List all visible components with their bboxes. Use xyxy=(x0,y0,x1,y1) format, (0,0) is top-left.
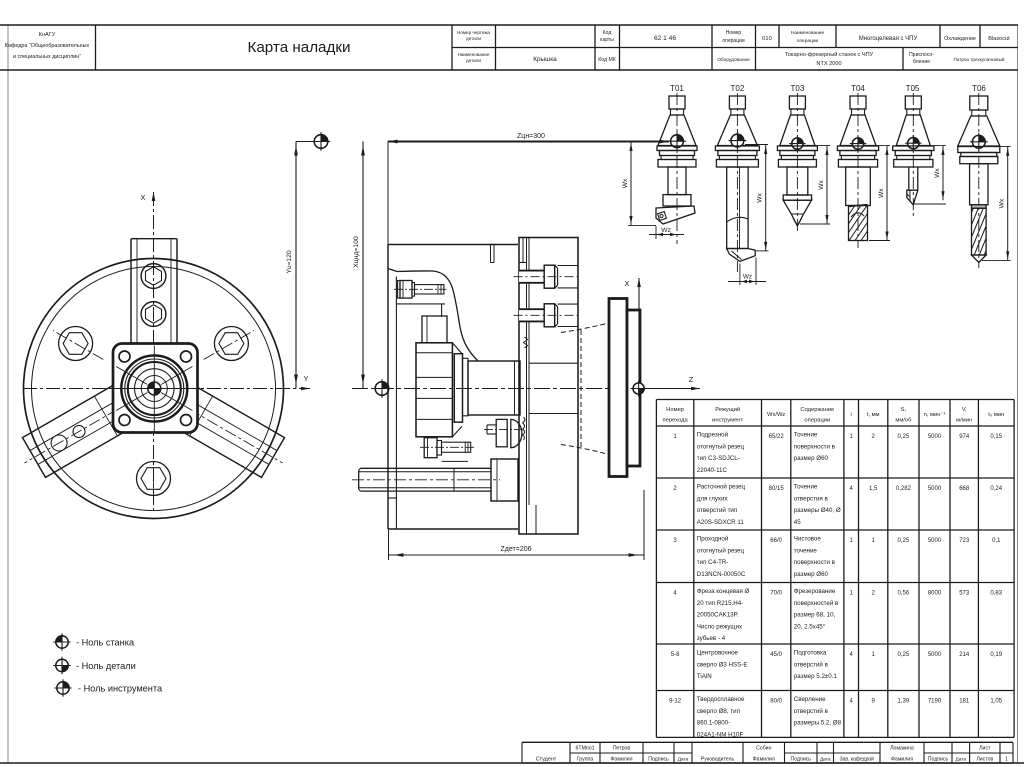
svg-text:Дата: Дата xyxy=(678,757,689,763)
tool T02 xyxy=(736,93,738,272)
T06 drill flutes xyxy=(972,208,987,255)
svg-text:Расточной резец: Расточной резец xyxy=(697,484,746,491)
svg-text:- Ноль инструмента: - Ноль инструмента xyxy=(78,684,163,694)
section: jaw clamp block xyxy=(491,459,518,501)
section: zigzag joint xyxy=(524,337,528,348)
workpiece plate 2 xyxy=(627,310,640,466)
flange centre rings xyxy=(121,356,187,422)
svg-text:Карта наладки: Карта наладки xyxy=(248,39,351,56)
svg-text:i: i xyxy=(851,412,852,418)
svg-text:Номер: Номер xyxy=(666,407,684,413)
svg-text:181: 181 xyxy=(959,699,970,705)
top jaw xyxy=(131,238,177,240)
svg-text:операции: операции xyxy=(797,39,819,44)
section: chuck body side outline xyxy=(387,142,389,245)
section: top bolt xyxy=(398,281,400,299)
chuck cam screw left xyxy=(59,327,93,361)
svg-text:тип C3-SDJCL-: тип C3-SDJCL- xyxy=(697,455,740,462)
svg-text:инструмент: инструмент xyxy=(712,418,743,424)
svg-text:Подпись: Подпись xyxy=(648,757,669,763)
svg-text:мм/об: мм/об xyxy=(895,418,912,424)
T01 cutter head xyxy=(656,206,695,224)
svg-text:карты: карты xyxy=(600,37,614,43)
svg-text:Xцнд=100: Xцнд=100 xyxy=(353,236,360,268)
section: body roof + shoulder profile xyxy=(388,269,478,362)
svg-text:6ТМпо1: 6ТМпо1 xyxy=(576,746,595,752)
svg-text:66/0: 66/0 xyxy=(770,538,782,544)
svg-text:перехода: перехода xyxy=(662,418,688,424)
svg-text:860.1-0800-: 860.1-0800- xyxy=(697,720,730,727)
svg-text:Фрезерование: Фрезерование xyxy=(794,588,836,595)
operations table grid xyxy=(656,399,1014,401)
svg-text:0,24: 0,24 xyxy=(990,486,1002,492)
svg-text:5-8: 5-8 xyxy=(671,652,680,658)
svg-text:20 тип R215.H4-: 20 тип R215.H4- xyxy=(697,600,743,607)
svg-text:0,25: 0,25 xyxy=(898,538,910,544)
svg-text:м/мин: м/мин xyxy=(956,418,972,424)
svg-text:Руководитель: Руководитель xyxy=(701,757,735,763)
svg-text:Многоцелевая с ЧПУ: Многоцелевая с ЧПУ xyxy=(859,36,918,42)
svg-text:t₀ мин: t₀ мин xyxy=(988,412,1004,418)
dimension Zдет=206 xyxy=(388,529,390,560)
T01 Wx dimension xyxy=(630,142,632,225)
svg-text:отверстий в: отверстий в xyxy=(794,661,829,668)
svg-text:S,: S, xyxy=(901,407,907,413)
svg-text:0,1: 0,1 xyxy=(992,538,1001,544)
svg-text:Приспосо-: Приспосо- xyxy=(909,52,934,58)
svg-text:операции: операции xyxy=(804,418,830,424)
T03 Wx dimension xyxy=(803,145,830,147)
svg-text:Подпись: Подпись xyxy=(928,757,949,763)
tool T03 xyxy=(796,93,798,232)
chuck body outer circle xyxy=(24,259,284,519)
svg-text:0,83: 0,83 xyxy=(990,591,1002,597)
signature block grid xyxy=(522,741,1013,743)
chuck cam screw bottom xyxy=(137,462,171,496)
top jaw screw 1 xyxy=(141,264,166,289)
svg-text:TiAlN: TiAlN xyxy=(697,673,712,680)
svg-text:Сверление: Сверление xyxy=(794,696,826,703)
svg-text:0,25: 0,25 xyxy=(898,434,910,440)
svg-text:Zцн=300: Zцн=300 xyxy=(517,133,545,140)
svg-text:0,282: 0,282 xyxy=(896,486,912,492)
chuck horizontal centerline / Y axis xyxy=(23,388,310,390)
svg-text:80/0: 80/0 xyxy=(770,699,782,705)
svg-text:сверло Ø3 HSS-E: сверло Ø3 HSS-E xyxy=(697,661,748,668)
svg-text:8000: 8000 xyxy=(928,591,942,597)
svg-text:65/22: 65/22 xyxy=(769,434,785,440)
section: shelf under bolt xyxy=(395,277,397,499)
svg-text:размер 5.2±0.1: размер 5.2±0.1 xyxy=(794,673,838,680)
svg-text:Лист: Лист xyxy=(979,746,991,752)
T05 tip xyxy=(907,190,918,205)
svg-text:0,56: 0,56 xyxy=(898,591,910,597)
svg-text:Точение: Точение xyxy=(794,432,818,439)
svg-text:Зав. кафедрой: Зав. кафедрой xyxy=(840,756,875,763)
svg-text:зубьев - 4: зубьев - 4 xyxy=(697,635,726,642)
svg-text:отверстий в: отверстий в xyxy=(794,708,829,715)
svg-text:поверхностей в: поверхностей в xyxy=(794,600,839,607)
svg-text:1,05: 1,05 xyxy=(990,699,1002,705)
title block grid xyxy=(0,24,1018,26)
chuck vertical centerline / X axis xyxy=(153,192,155,512)
svg-text:024A1-NM H10F: 024A1-NM H10F xyxy=(697,731,744,738)
svg-text:Wx/Wz: Wx/Wz xyxy=(767,412,785,418)
svg-text:Фреза концевая Ø: Фреза концевая Ø xyxy=(697,588,750,595)
svg-text:Подрезной: Подрезной xyxy=(697,432,729,439)
svg-text:010: 010 xyxy=(762,36,772,42)
svg-text:отверстий тип: отверстий тип xyxy=(697,507,737,514)
svg-text:45: 45 xyxy=(794,519,801,526)
svg-text:Токарно-фрезерный станок с ЧПУ: Токарно-фрезерный станок с ЧПУ xyxy=(785,51,874,58)
svg-text:0,15: 0,15 xyxy=(990,434,1002,440)
plate crosshair spokes xyxy=(162,388,198,390)
svg-text:размер 68, 10,: размер 68, 10, xyxy=(794,612,836,619)
dimension Yu=120 xyxy=(295,142,297,389)
svg-text:5000: 5000 xyxy=(928,434,942,440)
section: tall spacer strip xyxy=(454,354,462,423)
svg-text:для глухих: для глухих xyxy=(697,495,729,502)
svg-text:Патрон трехкулачковый: Патрон трехкулачковый xyxy=(954,56,1005,62)
workpiece (Крышка) plate 1 xyxy=(609,299,627,477)
svg-text:Номер: Номер xyxy=(726,30,742,36)
flange corner hole BL xyxy=(119,415,130,426)
svg-text:Оборудование: Оборудование xyxy=(717,57,750,63)
svg-text:Wz: Wz xyxy=(661,227,671,234)
svg-text:Кафедра “Общеобразовательных: Кафедра “Общеобразовательных xyxy=(5,43,90,49)
svg-text:Подпись: Подпись xyxy=(790,757,811,763)
svg-text:Код МК: Код МК xyxy=(598,57,616,63)
svg-text:Точение: Точение xyxy=(794,484,818,491)
svg-text:Ломакина: Ломакина xyxy=(890,746,914,752)
section: bottom jaw bar xyxy=(361,467,492,469)
svg-text:Наименование: Наименование xyxy=(791,30,825,36)
drawing frame right border xyxy=(1017,25,1019,763)
svg-text:Петров: Петров xyxy=(613,746,631,752)
T02 Wz dimension xyxy=(739,264,741,286)
svg-text:Собин: Собин xyxy=(756,746,772,752)
flange corner hole BR xyxy=(181,415,192,426)
svg-text:бление: бление xyxy=(913,59,930,65)
svg-text:Фамилия: Фамилия xyxy=(610,757,632,763)
svg-text:размер Ø60: размер Ø60 xyxy=(794,571,829,578)
svg-text:573: 573 xyxy=(959,591,970,597)
svg-text:Охлаждение: Охлаждение xyxy=(944,36,976,42)
svg-text:20050CAK13P.: 20050CAK13P. xyxy=(697,612,739,619)
svg-text:Листов: Листов xyxy=(976,757,993,763)
T04 Wx dimension xyxy=(864,145,890,147)
T05 Wx dimension xyxy=(919,145,946,147)
svg-text:- Ноль детали: - Ноль детали xyxy=(76,661,136,671)
svg-text:62 1 46: 62 1 46 xyxy=(654,35,676,42)
svg-text:Blasocut: Blasocut xyxy=(988,36,1010,42)
svg-text:20, 2.5x45°: 20, 2.5x45° xyxy=(794,623,826,630)
svg-text:T03: T03 xyxy=(791,84,805,93)
drawing frame bottom border xyxy=(0,762,1024,764)
svg-text:A20S-SDXCR 11: A20S-SDXCR 11 xyxy=(697,519,745,526)
svg-text:0,19: 0,19 xyxy=(990,652,1002,658)
tool T05 xyxy=(912,93,914,217)
svg-text:Центровочное: Центровочное xyxy=(697,650,739,657)
svg-text:Режущий: Режущий xyxy=(715,406,740,413)
svg-text:отогнутый резец: отогнутый резец xyxy=(697,443,745,450)
svg-text:Фамилия: Фамилия xyxy=(891,757,913,763)
workpiece X axis xyxy=(638,278,640,389)
svg-text:КнАГУ: КнАГУ xyxy=(39,32,56,38)
svg-text:- Ноль станка: - Ноль станка xyxy=(76,638,135,648)
section: right block (spindle housing) xyxy=(519,238,578,535)
dimension Xцнд=100 xyxy=(362,142,364,389)
section: inner small block xyxy=(422,316,447,343)
svg-text:Wx: Wx xyxy=(757,192,764,202)
tool T06 xyxy=(978,93,980,268)
svg-text:0,25: 0,25 xyxy=(898,652,910,658)
T03 point xyxy=(783,200,811,226)
T02 Wx dimension xyxy=(745,144,768,146)
svg-text:операции: операции xyxy=(722,38,744,44)
machine zero on section xyxy=(373,379,392,398)
svg-text:Наименование: Наименование xyxy=(458,52,490,57)
svg-text:размер Ø60: размер Ø60 xyxy=(794,455,829,462)
svg-text:5000: 5000 xyxy=(928,652,942,658)
svg-text:Число режущих: Число режущих xyxy=(697,623,743,630)
dimension Zцн=300 line xyxy=(388,141,669,143)
section: lower-right bolt xyxy=(487,424,496,426)
section: hidden part contour (dashed) xyxy=(580,330,582,448)
section: block bolt upper xyxy=(519,271,544,283)
svg-text:70/0: 70/0 xyxy=(770,591,782,597)
svg-text:T06: T06 xyxy=(972,84,986,93)
top jaw screw 2 xyxy=(141,302,166,327)
svg-text:Wz: Wz xyxy=(743,274,752,281)
T06 tip xyxy=(972,255,987,263)
svg-text:сверло Ø8, тип: сверло Ø8, тип xyxy=(697,708,740,715)
flange corner hole TL xyxy=(119,351,130,362)
svg-text:723: 723 xyxy=(959,538,970,544)
svg-text:поверхности в: поверхности в xyxy=(794,559,836,566)
svg-text:1,5: 1,5 xyxy=(869,486,878,492)
T01 Wz dimension xyxy=(655,226,657,239)
svg-text:X: X xyxy=(140,193,145,202)
svg-text:Чистовое: Чистовое xyxy=(794,536,822,543)
svg-text:974: 974 xyxy=(959,434,970,440)
svg-text:размеры 5.2, Ø8: размеры 5.2, Ø8 xyxy=(794,720,842,727)
svg-text:1: 1 xyxy=(1005,757,1008,763)
svg-text:точение: точение xyxy=(794,547,818,554)
jaw hole 1 xyxy=(71,423,87,439)
svg-text:Проходной: Проходной xyxy=(697,536,729,543)
workpiece Z axis xyxy=(640,388,700,390)
svg-text:T05: T05 xyxy=(906,84,920,93)
section: horizontal centreline xyxy=(352,388,660,390)
svg-text:и специальных дисциплин”: и специальных дисциплин” xyxy=(13,54,81,60)
svg-text:Zдет=206: Zдет=206 xyxy=(501,546,532,553)
svg-text:T01: T01 xyxy=(670,84,684,93)
section: hanging plate under tie line xyxy=(490,245,492,263)
svg-text:детали: детали xyxy=(466,58,481,63)
svg-text:214: 214 xyxy=(959,652,970,658)
svg-text:D13NCN-00050C: D13NCN-00050C xyxy=(697,571,746,578)
svg-text:Студент: Студент xyxy=(536,757,557,763)
T02 tip xyxy=(727,249,756,262)
jaw hole 2 xyxy=(48,432,70,454)
svg-text:Yu=120: Yu=120 xyxy=(286,250,293,273)
svg-text:Дата: Дата xyxy=(820,757,831,763)
legend: Ноль станка xyxy=(53,633,70,650)
svg-text:T02: T02 xyxy=(731,84,745,93)
svg-text:Y: Y xyxy=(303,374,308,383)
svg-text:5000: 5000 xyxy=(928,538,942,544)
svg-text:Фамилия: Фамилия xyxy=(753,757,775,763)
svg-text:1,39: 1,39 xyxy=(898,699,910,705)
lower-left jaw xyxy=(13,379,148,483)
chuck cam screw right xyxy=(214,327,248,361)
svg-text:детали: детали xyxy=(466,36,481,41)
svg-text:V,: V, xyxy=(962,407,967,413)
svg-text:Содержание: Содержание xyxy=(800,407,834,413)
svg-text:Группа: Группа xyxy=(577,757,594,763)
svg-text:Дата: Дата xyxy=(955,757,966,763)
legend: Ноль инструмента xyxy=(54,679,71,696)
svg-text:t, мм: t, мм xyxy=(867,412,880,418)
section: spindle bore lines xyxy=(529,362,578,364)
workpiece zero symbol xyxy=(631,380,647,396)
svg-text:n, мин⁻¹: n, мин⁻¹ xyxy=(924,412,946,418)
section: block bolt lower xyxy=(519,309,544,321)
svg-text:Z: Z xyxy=(689,375,694,384)
T06 Wx dimension xyxy=(985,145,1011,147)
flange corner hole TR xyxy=(181,351,192,362)
drawing frame left border xyxy=(7,25,9,763)
svg-text:9-12: 9-12 xyxy=(669,699,682,705)
svg-text:Подготовка: Подготовка xyxy=(794,650,827,657)
svg-text:поверхности в: поверхности в xyxy=(794,443,836,450)
centre square flange plate xyxy=(113,344,198,433)
section: drawtube block (side view) xyxy=(416,343,452,437)
svg-text:Wx: Wx xyxy=(999,198,1006,208)
legend: Ноль детали xyxy=(53,657,70,674)
svg-text:Твердосплавное: Твердосплавное xyxy=(697,696,745,703)
svg-text:5000: 5000 xyxy=(928,486,942,492)
tool T04 xyxy=(857,93,859,248)
svg-text:668: 668 xyxy=(959,486,970,492)
svg-text:отверстия в: отверстия в xyxy=(794,495,829,502)
svg-text:Номер чертежа: Номер чертежа xyxy=(457,30,490,35)
svg-text:Крышка: Крышка xyxy=(533,56,557,63)
svg-text:Код: Код xyxy=(603,30,612,36)
T04 mill flutes xyxy=(849,206,868,241)
svg-text:Wx: Wx xyxy=(934,168,941,178)
svg-text:тип C4-TR-: тип C4-TR- xyxy=(697,559,729,566)
svg-text:80/15: 80/15 xyxy=(769,486,785,492)
tool T01 xyxy=(676,93,678,244)
svg-text:отогнутый резец: отогнутый резец xyxy=(697,547,745,554)
svg-text:Wx: Wx xyxy=(622,178,629,188)
section: adapter cylinder xyxy=(468,361,520,415)
lower-right jaw xyxy=(159,379,294,483)
svg-text:Wx: Wx xyxy=(878,188,885,198)
svg-text:размеры Ø40, Ø: размеры Ø40, Ø xyxy=(794,507,841,514)
machine zero symbol (Ноль станка) xyxy=(296,141,314,143)
svg-text:Wx: Wx xyxy=(818,180,825,190)
svg-text:NTX 2000: NTX 2000 xyxy=(816,61,841,67)
section: lower-left bolt xyxy=(424,438,437,458)
svg-text:X: X xyxy=(624,279,629,288)
svg-text:7190: 7190 xyxy=(928,699,942,705)
chuck inner circle xyxy=(32,267,276,511)
svg-text:45/0: 45/0 xyxy=(770,652,782,658)
detail zero at chuck centre xyxy=(145,380,163,398)
svg-text:22040-11C: 22040-11C xyxy=(697,467,728,474)
svg-text:T04: T04 xyxy=(851,84,865,93)
